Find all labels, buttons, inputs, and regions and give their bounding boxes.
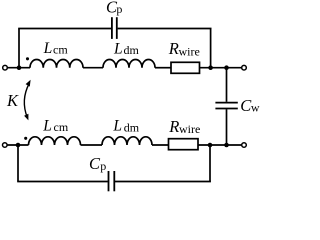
wire bottom C_p loop left vertical bbox=[17, 145, 19, 182]
inductor L_dm bottom coil bbox=[102, 137, 152, 145]
label C_p bottom bbox=[89, 154, 106, 173]
svg-text:R: R bbox=[168, 39, 179, 58]
label L_cm top bbox=[43, 40, 69, 57]
svg-text:cm: cm bbox=[54, 120, 69, 134]
svg-text:L: L bbox=[42, 117, 52, 134]
inductor L_dm top coil bbox=[103, 60, 155, 68]
wire bottom-left horizontal bbox=[7, 144, 28, 146]
capacitor C_w plates bbox=[215, 103, 237, 109]
inductor L_cm top coil bbox=[30, 59, 83, 67]
wire C_w lower vertical bbox=[226, 109, 228, 145]
wire between L_cm and L_dm top bbox=[83, 67, 103, 69]
svg-text:C: C bbox=[89, 154, 101, 173]
inductor L_cm bottom coil bbox=[29, 137, 81, 145]
svg-text:cm: cm bbox=[53, 43, 68, 57]
svg-text:wire: wire bbox=[179, 44, 200, 58]
label C_w bbox=[240, 96, 260, 115]
wire L_dm to R_wire top bbox=[155, 67, 171, 69]
junction bottom C_p right bbox=[208, 143, 213, 148]
resistor R_wire top box bbox=[171, 62, 200, 73]
resistor R_wire bottom box bbox=[169, 139, 199, 150]
label R_wire top bbox=[168, 39, 200, 58]
wire top C_p loop right vertical bbox=[210, 29, 212, 68]
polarity dot bottom winding bbox=[24, 137, 27, 140]
wire top C_p loop right horizontal bbox=[118, 28, 212, 30]
junction top C_w bbox=[224, 65, 229, 70]
coupling arrow K bbox=[24, 80, 31, 121]
svg-text:wire: wire bbox=[179, 122, 200, 136]
capacitor C_p top plates bbox=[112, 17, 117, 39]
wire C_w upper vertical bbox=[226, 68, 228, 102]
svg-text:R: R bbox=[168, 117, 179, 136]
wire between L_cm and L_dm bottom bbox=[81, 144, 103, 146]
svg-text:L: L bbox=[113, 40, 123, 57]
junction bottom-left bbox=[16, 143, 21, 148]
wire L_dm to R_wire bottom bbox=[152, 144, 169, 146]
label C_p top bbox=[106, 0, 122, 16]
wire top C_p loop left horizontal bbox=[18, 28, 111, 30]
wire R_wire to right terminal bottom bbox=[198, 144, 242, 146]
svg-text:K: K bbox=[6, 91, 19, 110]
label R_wire bottom bbox=[168, 117, 200, 136]
svg-text:dm: dm bbox=[124, 120, 140, 134]
wire bottom C_p loop right horizontal bbox=[115, 181, 211, 183]
junction top-left bbox=[17, 65, 22, 70]
terminal top-left bbox=[3, 65, 8, 70]
junction top C_p right bbox=[208, 65, 213, 70]
polarity dot top winding bbox=[26, 57, 29, 60]
terminal top-right bbox=[242, 65, 247, 70]
terminal bottom-left bbox=[3, 143, 8, 148]
svg-text:p: p bbox=[116, 2, 122, 16]
svg-text:dm: dm bbox=[124, 43, 140, 57]
svg-text:L: L bbox=[112, 118, 122, 135]
capacitor C_p bottom plates bbox=[109, 171, 115, 191]
wire bottom C_p loop right vertical bbox=[209, 145, 211, 182]
svg-text:p: p bbox=[100, 159, 106, 173]
svg-text:w: w bbox=[251, 101, 260, 115]
label L_cm bottom bbox=[42, 117, 69, 134]
terminal bottom-right bbox=[242, 143, 247, 148]
label L_dm top bbox=[113, 40, 140, 57]
label L_dm bottom bbox=[112, 118, 139, 135]
junction bottom C_w bbox=[224, 143, 229, 148]
wire top-left horizontal bbox=[7, 67, 30, 69]
wire R_wire to right terminal top bbox=[200, 67, 242, 69]
svg-text:L: L bbox=[43, 40, 53, 57]
wire top C_p loop left vertical bbox=[18, 29, 20, 68]
wire bottom C_p loop left horizontal bbox=[17, 181, 108, 183]
